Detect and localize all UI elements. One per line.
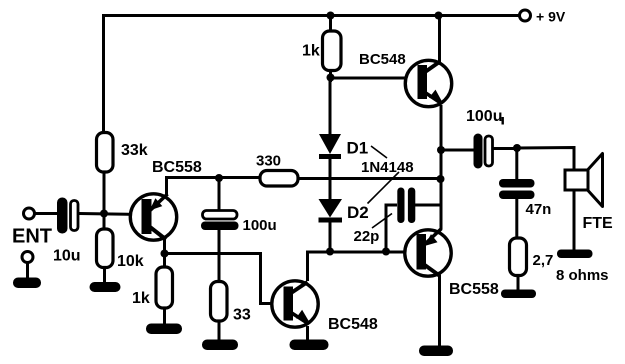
wire ENT terminal 2 to ground bbox=[26, 263, 29, 280]
wire 330 to output column bbox=[298, 177, 441, 180]
wire Q3 collector to Q4 base bbox=[308, 252, 418, 281]
terminal ENT ground side bbox=[22, 252, 33, 263]
wire node down to 47n bbox=[515, 148, 518, 180]
wire speaker to ground bbox=[573, 190, 576, 251]
svg-text:33: 33 bbox=[233, 307, 251, 324]
transistor Q1 BC558 bbox=[130, 194, 176, 240]
svg-text:22p: 22p bbox=[354, 228, 380, 245]
svg-text:10k: 10k bbox=[117, 253, 144, 270]
wire ENT terminal to C 10u bbox=[35, 212, 59, 215]
node Q1 collector junction bbox=[161, 250, 169, 258]
node rail Q2 collector bbox=[435, 12, 443, 20]
wire 22p branch bbox=[386, 205, 397, 252]
transistor Q3 BC548 bbox=[272, 281, 318, 327]
wire Q3 emitter to ground bbox=[306, 326, 309, 341]
node top rail to 1k top bbox=[327, 12, 335, 20]
resistor 1k left bbox=[156, 267, 173, 308]
diode D2 1N4148 bbox=[319, 199, 343, 223]
capacitor 47n bbox=[499, 179, 535, 199]
svg-text:1k: 1k bbox=[132, 290, 150, 307]
ground under speaker bbox=[557, 250, 593, 259]
svg-text:ENT: ENT bbox=[12, 226, 52, 248]
svg-text:D1: D1 bbox=[347, 139, 369, 158]
capacitor 100u bbox=[201, 211, 239, 231]
svg-text:BC548: BC548 bbox=[328, 316, 378, 333]
wire 22p to output column bbox=[415, 204, 441, 207]
diode D1 1N4148 bbox=[319, 134, 341, 159]
ground under Q3 bbox=[290, 340, 329, 351]
wire junction to C 100u bbox=[218, 178, 221, 212]
svg-text:BC548: BC548 bbox=[359, 51, 406, 68]
svg-text:BC558: BC558 bbox=[449, 281, 499, 298]
svg-text:8 ohms: 8 ohms bbox=[556, 267, 609, 284]
svg-text:BC558: BC558 bbox=[152, 159, 202, 176]
wire rail to 1k top bbox=[329, 16, 332, 33]
capacitor 22p bbox=[397, 188, 415, 224]
resistor 330 bbox=[260, 171, 298, 187]
wire C 100u out to 47n node bbox=[493, 147, 518, 150]
svg-text:2,7: 2,7 bbox=[533, 252, 554, 269]
svg-text:1N4148: 1N4148 bbox=[361, 159, 414, 176]
wire node to C 100u out bbox=[441, 149, 474, 152]
svg-text:100u: 100u bbox=[466, 108, 502, 125]
callout line 22p to capacitor bbox=[372, 214, 392, 229]
wire node to Q3 base bbox=[165, 254, 285, 304]
capacitor 10u bbox=[57, 198, 78, 234]
wire D1 to D2 bbox=[329, 159, 332, 200]
wire Q1 collector down to emitter node bbox=[163, 239, 166, 254]
wire input node to 10k bbox=[103, 214, 106, 231]
wire output column Q2 emitter to Q4 emitter bbox=[440, 105, 443, 229]
wire node down to D1 bbox=[329, 78, 332, 137]
wire 33k to input node bbox=[103, 171, 106, 229]
wire Q1 emitter up and right to 330 bbox=[167, 178, 262, 197]
ground under Q4 bbox=[419, 346, 453, 357]
svg-text:D2: D2 bbox=[347, 203, 369, 222]
terminal ENT input bbox=[24, 208, 35, 219]
node D2 bottom junction bbox=[326, 248, 334, 256]
svg-text:+ 9V: + 9V bbox=[536, 9, 566, 25]
resistor 33 bbox=[211, 282, 228, 322]
svg-text:33k: 33k bbox=[121, 142, 148, 159]
wire 47n to 2,7 bbox=[515, 199, 518, 239]
battery terminal +9V bbox=[520, 10, 531, 21]
wire node to speaker bbox=[517, 148, 574, 172]
node 47n junction bbox=[513, 144, 521, 152]
wire +9V top rail bbox=[104, 14, 520, 17]
node Q2 base junction bbox=[327, 74, 335, 82]
callout line D1 to 1N4148 bbox=[371, 146, 387, 158]
svg-text:100u: 100u bbox=[243, 217, 277, 234]
node 22p tap junction bbox=[382, 248, 390, 256]
resistor 1k top bbox=[323, 31, 342, 71]
wire D2 to bottom node bbox=[329, 222, 332, 252]
ground under 10k bbox=[90, 282, 121, 292]
wire Q4 collector to ground bbox=[438, 275, 441, 347]
wire 10k to ground bbox=[103, 267, 106, 284]
svg-text:47n: 47n bbox=[526, 201, 552, 218]
node input junction bbox=[100, 210, 108, 218]
wire left drop from rail to 33k bbox=[102, 14, 105, 134]
wire node to 1k bbox=[163, 254, 166, 269]
ground under 1k bbox=[146, 324, 182, 335]
node Q1 collector-feedback junction bbox=[215, 174, 223, 182]
ground under ENT bbox=[13, 278, 41, 289]
wire C 10u to input node and Q1 base bbox=[79, 214, 142, 215]
svg-text:FTE: FTE bbox=[583, 215, 614, 232]
resistor 2,7 bbox=[510, 238, 527, 276]
resistor 10k bbox=[97, 229, 114, 268]
wire node to Q2 base bbox=[331, 77, 419, 80]
wire C 100u to 33 bbox=[218, 230, 221, 283]
node output at 330 bbox=[437, 175, 445, 183]
callout line D2 to 1N4148 bbox=[368, 172, 400, 204]
wire 1k to Q2 base node bbox=[329, 70, 332, 82]
resistor 33k bbox=[97, 133, 114, 173]
wire 2,7 to ground bbox=[517, 276, 520, 292]
transistor Q4 BC558 bbox=[405, 229, 451, 277]
ground under 2,7 bbox=[501, 290, 536, 299]
speaker FTE bbox=[565, 154, 603, 207]
svg-text:1k: 1k bbox=[302, 43, 320, 60]
node output to C 100u out bbox=[437, 146, 445, 154]
wire 33 to ground bbox=[218, 321, 221, 341]
ground under 33 bbox=[202, 340, 238, 351]
svg-text:330: 330 bbox=[256, 153, 281, 170]
svg-text:10u: 10u bbox=[53, 248, 81, 265]
transistor Q2 BC548 bbox=[405, 60, 451, 106]
wire 1k to ground bbox=[163, 308, 166, 325]
capacitor 100u output bbox=[474, 134, 493, 169]
wire Q2 collector to rail bbox=[438, 16, 441, 63]
